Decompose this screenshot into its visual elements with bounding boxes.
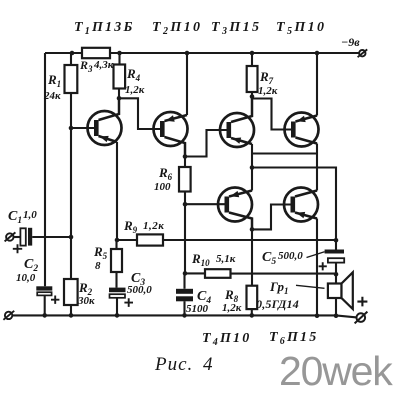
transistor T3 <box>220 97 254 191</box>
wire R7 node to T5 base step <box>252 99 291 130</box>
capacitor C2 <box>36 286 52 290</box>
node C1 junction <box>69 235 74 240</box>
svg-text:0,5ГД14: 0,5ГД14 <box>256 297 299 311</box>
node R9 left / T1 collector <box>115 238 120 243</box>
wire top rail mid segment <box>110 52 359 54</box>
terminal ground left <box>3 311 14 320</box>
node ground C3 <box>115 313 120 318</box>
node ground C2 <box>42 313 47 318</box>
svg-text:1,2к: 1,2к <box>222 302 242 314</box>
svg-text:1,0: 1,0 <box>23 209 37 221</box>
wire input to C1 <box>14 236 21 238</box>
svg-text:1,2к: 1,2к <box>143 220 164 232</box>
wire C1 to R-divider node <box>32 236 71 238</box>
capacitor C4 <box>176 289 193 294</box>
svg-text:5100: 5100 <box>186 303 209 315</box>
wire T2 collector to T3 base step <box>185 130 227 157</box>
svg-text:30к: 30к <box>77 295 95 307</box>
node T2 collector / R6 top <box>183 154 188 159</box>
wire T4 collector to T6 base step <box>252 205 291 230</box>
svg-text:8: 8 <box>95 260 101 272</box>
svg-text:500,0: 500,0 <box>127 284 152 296</box>
plus C3 <box>124 298 133 307</box>
resistor R5 <box>115 240 117 249</box>
resistor R8 <box>247 286 258 309</box>
node R9 bus to C5 branch <box>334 238 339 243</box>
terminal output right <box>355 312 368 324</box>
resistor R3 <box>82 48 110 58</box>
capacitor C1 <box>20 228 25 245</box>
svg-text:Рис.: Рис. <box>154 354 193 375</box>
node ground R2 <box>69 313 74 318</box>
wire top rail left segment <box>45 52 82 54</box>
svg-text:Т6П15: Т6П15 <box>269 330 318 347</box>
node C4 top <box>183 271 188 276</box>
capacitor C5 <box>325 250 344 254</box>
node ground T6 <box>315 313 320 318</box>
transistor T1 <box>71 98 122 240</box>
speaker Gr1 <box>328 272 353 309</box>
plus C1 <box>13 244 22 253</box>
node T5 rail <box>315 51 320 56</box>
leader C5 label <box>307 252 325 258</box>
resistor R10 <box>205 269 231 278</box>
wire R4 bottom <box>118 89 120 99</box>
node T2 emitter rail <box>185 51 190 56</box>
svg-text:Т1П13Б: Т1П13Б <box>74 20 135 37</box>
resistor R6 <box>184 157 186 168</box>
svg-text:1,2к: 1,2к <box>125 84 145 96</box>
node ground C4 <box>182 313 187 318</box>
resistor R7 <box>251 53 253 66</box>
wire ground bus <box>12 315 357 317</box>
wire output node to C5 branch <box>252 168 336 250</box>
svg-text:4: 4 <box>203 354 213 375</box>
terminal input <box>5 232 16 241</box>
resistor R4 <box>118 53 120 65</box>
node T4 base <box>183 202 188 207</box>
transistor T6 <box>284 188 318 316</box>
wire T4 collector to R8 <box>251 229 253 285</box>
wire R6 bottom vertical <box>184 192 186 274</box>
node output mid <box>250 165 255 170</box>
svg-text:5,1к: 5,1к <box>216 253 236 265</box>
resistor R1 <box>70 53 72 65</box>
svg-text:−9в: −9в <box>341 35 360 49</box>
transistor T2 <box>154 53 188 157</box>
svg-text:Т4П10: Т4П10 <box>202 331 251 348</box>
wire R4 node to T2 base step <box>119 98 160 129</box>
node R7 bottom <box>250 94 255 99</box>
node R4 top <box>117 51 122 56</box>
wire R1 bottom vertical <box>70 93 72 279</box>
node R7 top <box>250 51 255 56</box>
capacitor C3 <box>109 288 126 293</box>
svg-text:10,0: 10,0 <box>16 272 36 284</box>
svg-text:24к: 24к <box>43 90 61 102</box>
node C5 bottom / speaker top <box>334 272 339 277</box>
svg-text:Т5П10: Т5П10 <box>276 20 326 37</box>
plus C2 <box>51 296 59 304</box>
wire feedback bus R9 row <box>117 239 336 241</box>
wire bus R10 row <box>185 272 336 274</box>
node T1 base <box>69 126 74 131</box>
node R4 bottom <box>117 96 122 101</box>
node ground R8 <box>250 313 255 318</box>
node ground speaker <box>334 313 339 318</box>
svg-text:100: 100 <box>154 181 171 193</box>
plus speaker <box>357 297 367 307</box>
plus C5 <box>319 262 327 270</box>
wire C2 to ground bus <box>44 296 46 316</box>
wire R2 to ground <box>70 305 72 315</box>
resistor R2 <box>64 279 78 305</box>
transistor T4 <box>185 188 252 230</box>
leader Gr1 label <box>296 285 325 288</box>
transistor T5 <box>285 53 319 191</box>
node T4 collector <box>250 227 255 232</box>
svg-text:4,3к: 4,3к <box>93 59 114 71</box>
wire link T3T4 to T5T6 <box>252 152 317 154</box>
svg-text:20wek: 20wek <box>279 348 393 393</box>
svg-text:500,0: 500,0 <box>278 250 303 262</box>
terminal -9v <box>358 49 368 57</box>
resistor R9 <box>137 234 163 245</box>
wire left rail <box>44 53 46 286</box>
svg-text:1,2к: 1,2к <box>258 85 278 97</box>
node R1 top <box>70 51 75 56</box>
svg-text:Т3П15: Т3П15 <box>211 20 261 37</box>
svg-text:Т2П10: Т2П10 <box>152 20 202 37</box>
